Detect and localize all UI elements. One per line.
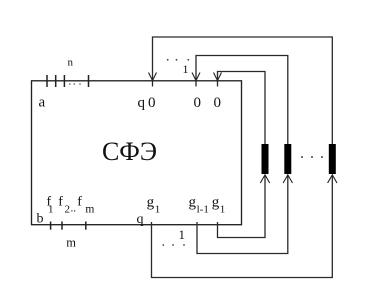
delay element bar D3 [329, 144, 336, 174]
arrowhead into D3 [328, 175, 337, 183]
svg-text:b: b [37, 212, 44, 227]
return wire 3 (q out to D3) [152, 176, 333, 278]
svg-text:2: 2 [65, 204, 71, 216]
svg-text:n: n [68, 57, 74, 69]
svg-text:0: 0 [214, 95, 222, 111]
svg-text:1: 1 [155, 204, 161, 216]
dots between bars [301, 156, 323, 158]
arrowhead wire3 into block [214, 73, 222, 81]
svg-text:0: 0 [148, 95, 156, 111]
return wire 1 (g_l to D1) [218, 176, 266, 238]
svg-text:1: 1 [220, 204, 226, 216]
svg-text:1: 1 [183, 62, 189, 76]
svg-text:q: q [137, 212, 144, 227]
arrowhead into D1 [260, 175, 269, 183]
svg-text:l-1: l-1 [197, 204, 209, 216]
bottom ellipsis dots (l wires) [162, 244, 185, 246]
feedback wire 1 (q column to right bar) [153, 37, 333, 144]
svg-text:m: m [66, 235, 76, 249]
output bus ticks (m) [51, 222, 86, 230]
input bus dots [69, 83, 81, 85]
delay element bar D1 [262, 144, 269, 174]
svg-text:1: 1 [48, 204, 54, 216]
svg-text:..: .. [71, 203, 77, 215]
svg-text:m: m [85, 204, 94, 216]
svg-text:g: g [212, 195, 220, 211]
arrowhead wire1 into block [149, 73, 157, 81]
top ellipsis dots (l wires) [167, 59, 189, 61]
return wire 2 (g_l-1 to D2) [197, 176, 288, 254]
block U1 СФЭ [32, 81, 242, 225]
arrowhead into D2 [283, 175, 292, 183]
feedback wire 3 [218, 72, 266, 145]
delay element bar D2 [284, 144, 291, 174]
svg-text:q: q [138, 95, 146, 111]
feedback wire 2 [196, 56, 288, 145]
svg-text:0: 0 [194, 95, 202, 111]
svg-text:f: f [58, 195, 63, 210]
svg-text:a: a [39, 95, 46, 111]
arrowhead wire2 into block [192, 73, 200, 81]
svg-text:СФЭ: СФЭ [102, 137, 157, 166]
svg-text:f: f [77, 195, 82, 210]
svg-text:1: 1 [179, 227, 186, 242]
svg-text:g: g [189, 195, 197, 211]
svg-text:g: g [147, 195, 155, 211]
input bus ticks (n) [47, 75, 89, 87]
